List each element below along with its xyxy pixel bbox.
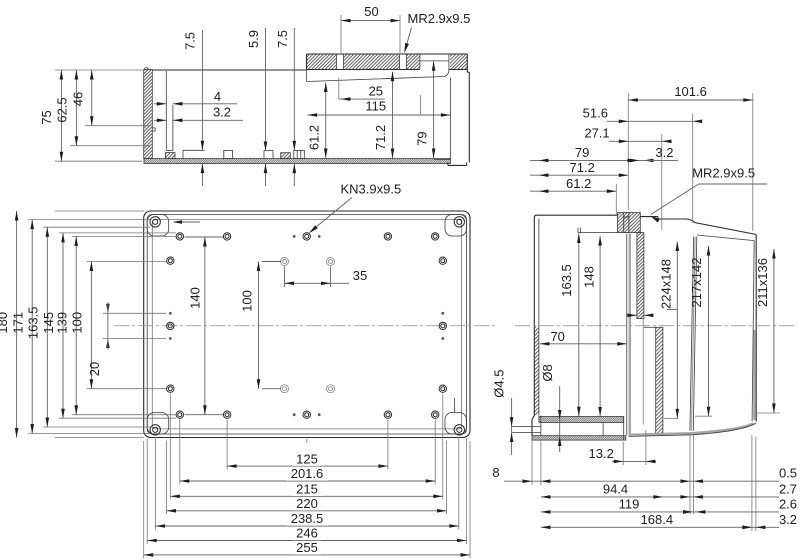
dim 246 (bottom) xyxy=(147,526,466,543)
dim 35 xyxy=(285,267,368,288)
screw hole notch 2 xyxy=(399,54,401,70)
dim 180 (left) xyxy=(0,211,144,438)
dim 125 (bottom) xyxy=(227,451,388,468)
dim 101.6 xyxy=(628,84,753,231)
floor hatched strip inner xyxy=(539,417,624,423)
dim 145 (left) xyxy=(41,233,176,418)
rib mark right edge xyxy=(454,398,456,413)
dim 61.2 (section A) xyxy=(307,83,328,159)
svg-text:100: 100 xyxy=(240,290,255,312)
svg-text:238.5: 238.5 xyxy=(291,511,324,526)
dim 27.1 xyxy=(584,126,671,230)
dim 140 xyxy=(185,237,224,415)
sloped top right xyxy=(687,219,757,235)
sloped side wall section lines xyxy=(693,237,697,431)
dim 25 xyxy=(339,78,385,101)
svg-text:13.2: 13.2 xyxy=(589,446,614,461)
corner screw boss xyxy=(147,413,169,435)
svg-text:115: 115 xyxy=(365,99,386,114)
svg-text:61.2: 61.2 xyxy=(566,176,591,191)
dim 255 (bottom) xyxy=(144,540,470,557)
dim 20 (left) xyxy=(87,302,166,376)
dim 50 (top) xyxy=(341,4,400,53)
svg-text:70: 70 xyxy=(550,329,564,344)
dim 211x136 xyxy=(755,249,780,413)
dim 62.5 xyxy=(55,70,152,146)
right wall inner xyxy=(450,78,452,160)
svg-text:8: 8 xyxy=(492,465,499,480)
svg-text:MR2.9x9.5: MR2.9x9.5 xyxy=(692,166,755,181)
extension lines bottom xyxy=(144,394,470,559)
svg-text:180: 180 xyxy=(0,312,10,334)
dim 215 (bottom) xyxy=(170,482,443,499)
hatched boss 2 xyxy=(281,153,291,159)
corner screw boss xyxy=(147,215,169,237)
outer outline xyxy=(144,211,470,438)
dim 4 xyxy=(154,89,237,106)
left wall xyxy=(534,327,539,416)
dim 163.5 (right view) xyxy=(559,234,581,417)
svg-text:3.2: 3.2 xyxy=(655,145,673,160)
svg-text:140: 140 xyxy=(188,287,203,309)
svg-text:75: 75 xyxy=(39,110,54,124)
svg-text:255: 255 xyxy=(296,540,318,555)
dim 8 / 0.5 xyxy=(492,434,799,514)
floor bottom hatched strip xyxy=(532,436,626,440)
dim 238.5 (bottom) xyxy=(156,511,459,528)
label MR2.9x9.5 (top) xyxy=(404,11,470,53)
dim 79 / 3.2 (right view) xyxy=(530,145,678,162)
section view B: side section of enclosure xyxy=(512,213,756,441)
mounting holes row top xyxy=(176,233,439,240)
dim 51.6 xyxy=(583,106,703,223)
dim 71.2 (right view) xyxy=(530,160,628,177)
lid screw boss hatched xyxy=(618,213,641,233)
svg-text:119: 119 xyxy=(619,496,640,511)
svg-text:139: 139 xyxy=(54,312,69,334)
svg-text:201.6: 201.6 xyxy=(291,466,324,481)
svg-text:71.2: 71.2 xyxy=(570,160,595,175)
dim 115 xyxy=(308,95,451,117)
centerline right view xyxy=(515,325,797,327)
inner rib lines xyxy=(165,71,167,151)
svg-text:7.5: 7.5 xyxy=(183,32,198,50)
dim 168.4 / 3.2 xyxy=(541,435,799,531)
svg-text:101.6: 101.6 xyxy=(674,84,707,99)
svg-text:KN3.9x9.5: KN3.9x9.5 xyxy=(341,182,402,197)
svg-text:148: 148 xyxy=(581,266,596,288)
left wall hatched section xyxy=(144,70,153,159)
skirt thickness arrows xyxy=(627,314,653,318)
svg-text:7.5: 7.5 xyxy=(275,30,290,48)
label MR2.9x9.5 (right view) xyxy=(650,166,767,223)
dim 100 (inner) xyxy=(240,262,281,389)
dim 61.2 (right view) xyxy=(530,176,616,214)
plan view of enclosure base xyxy=(144,211,470,438)
svg-text:61.2: 61.2 xyxy=(307,125,322,150)
dim 79 (section A) xyxy=(414,61,435,158)
lid edge outline xyxy=(147,215,466,435)
corner screw boss xyxy=(445,215,467,237)
svg-text:217x142: 217x142 xyxy=(689,258,704,308)
floor ledge xyxy=(183,149,205,151)
svg-text:20: 20 xyxy=(87,362,102,376)
dim 70 (right view) xyxy=(540,329,627,346)
side holes right column xyxy=(439,257,446,392)
svg-text:MR2.9x9.5: MR2.9x9.5 xyxy=(408,11,471,26)
dim 119 / 2.6 xyxy=(541,496,799,513)
lid underside slant xyxy=(307,72,449,82)
center stub bottom edge xyxy=(306,439,308,444)
mounting holes row bottom xyxy=(176,411,439,418)
corner arrow marker xyxy=(173,220,201,224)
corner screw boss xyxy=(445,413,467,435)
svg-text:220: 220 xyxy=(296,496,318,511)
lid skirt hatched xyxy=(637,233,644,319)
lid top edge xyxy=(537,214,618,216)
dim 13.2 xyxy=(589,430,656,465)
dim 3.2 xyxy=(154,105,243,123)
svg-text:25: 25 xyxy=(369,83,383,98)
screw hole notch 1 xyxy=(336,54,338,70)
svg-text:0.5: 0.5 xyxy=(779,466,797,481)
right foot xyxy=(447,163,449,166)
svg-text:211x136: 211x136 xyxy=(755,258,770,307)
dim 148 (right view) xyxy=(581,236,602,417)
svg-text:62.5: 62.5 xyxy=(55,97,70,122)
lid flange hatched band (section) xyxy=(307,54,470,165)
svg-text:2.7: 2.7 xyxy=(779,481,797,496)
svg-text:100: 100 xyxy=(70,312,85,334)
top edge xyxy=(152,69,306,71)
inner pcb holes (light) xyxy=(281,258,335,393)
svg-text:125: 125 xyxy=(296,451,318,466)
floor: foot left xyxy=(532,416,534,420)
dim 7.5 (second) xyxy=(275,28,296,186)
svg-text:246: 246 xyxy=(296,526,318,541)
foot hole lines (diam 4.5) xyxy=(512,426,540,428)
inner slope xyxy=(697,235,754,241)
boss near wall hatched xyxy=(166,153,176,159)
svg-text:79: 79 xyxy=(575,145,589,160)
dim 220 (bottom) xyxy=(167,496,447,513)
svg-text:163.5: 163.5 xyxy=(559,264,574,297)
svg-text:2.6: 2.6 xyxy=(779,496,797,511)
dim 163.5 (left) xyxy=(26,227,151,427)
step at 5.9 line xyxy=(264,149,273,151)
skirt tangent below xyxy=(642,319,644,425)
section view A: enclosure base, side section xyxy=(144,68,451,164)
inner wall hatched (right of section) xyxy=(656,327,663,435)
top edge right of boss xyxy=(640,216,658,218)
svg-text:71.2: 71.2 xyxy=(373,125,388,150)
svg-text:4: 4 xyxy=(214,89,221,104)
inner wall outline xyxy=(152,220,461,429)
label diam 4.5 xyxy=(492,370,514,455)
svg-text:Ø8: Ø8 xyxy=(540,364,555,381)
svg-text:163.5: 163.5 xyxy=(26,307,41,340)
dim 5.9 xyxy=(246,28,267,186)
wall top notch xyxy=(145,68,148,71)
dim 7.5 (first) xyxy=(183,30,205,186)
dim 201.6 (bottom) xyxy=(180,466,435,483)
svg-text:94.4: 94.4 xyxy=(603,481,628,496)
svg-text:3.2: 3.2 xyxy=(779,512,797,527)
dim 94.4 / 2.7 xyxy=(541,481,799,498)
bottom outer curve (thick gray) xyxy=(629,424,754,435)
boss 3 xyxy=(294,150,305,158)
svg-text:35: 35 xyxy=(353,268,367,283)
svg-text:224x148: 224x148 xyxy=(658,259,673,309)
side holes left column xyxy=(167,257,174,392)
dim 71.2 (section A) xyxy=(373,72,394,158)
label KN3.9x9.5 xyxy=(309,182,401,234)
svg-text:171: 171 xyxy=(10,312,25,334)
dim 100 (left) xyxy=(70,262,166,389)
dim 171 (left) xyxy=(10,220,150,434)
band right end step xyxy=(466,54,468,72)
svg-text:168.4: 168.4 xyxy=(641,512,674,527)
horizontal centerline xyxy=(114,325,497,327)
svg-text:46: 46 xyxy=(71,92,86,106)
small boss xyxy=(224,150,233,158)
dim 139 (left) xyxy=(54,236,176,414)
lid inner line xyxy=(578,232,618,234)
lid pocket xyxy=(419,54,421,70)
dim 224x148 xyxy=(658,242,679,419)
dim 217x142 xyxy=(689,246,712,416)
svg-text:3.2: 3.2 xyxy=(213,105,231,120)
svg-text:27.1: 27.1 xyxy=(584,126,609,141)
label diam 8 xyxy=(540,364,562,452)
right outer wall xyxy=(755,235,757,422)
svg-text:79: 79 xyxy=(414,131,429,145)
bottom floor hatched xyxy=(144,159,451,164)
svg-text:51.6: 51.6 xyxy=(583,106,608,121)
dim 46 xyxy=(71,70,152,126)
svg-text:50: 50 xyxy=(364,4,378,19)
inner surface tangent (gray) xyxy=(629,234,631,436)
svg-text:Ø4.5: Ø4.5 xyxy=(492,370,507,398)
svg-text:215: 215 xyxy=(296,482,318,497)
svg-text:5.9: 5.9 xyxy=(246,30,261,48)
dim 75 xyxy=(39,70,143,161)
